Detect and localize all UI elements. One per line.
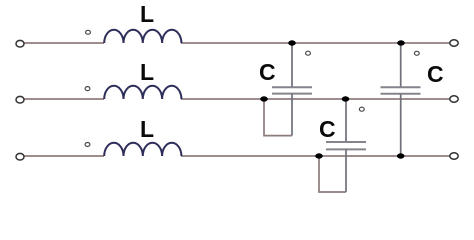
capacitor C2 top lead bbox=[345, 99, 347, 142]
terminal input phase B bbox=[16, 96, 24, 103]
wire phase C left segment bbox=[24, 155, 104, 157]
label C2 bbox=[319, 118, 336, 141]
terminal output phase C bbox=[450, 153, 458, 159]
inductor L3 bbox=[104, 143, 181, 156]
terminal input phase C bbox=[16, 153, 24, 160]
capacitor C2 plates bbox=[326, 142, 366, 149]
wire phase A left segment bbox=[24, 42, 104, 44]
capacitor C1 top lead bbox=[291, 43, 293, 87]
capacitor C1 plates bbox=[272, 87, 312, 93]
junction phase A / C3 bbox=[397, 40, 405, 45]
capacitor C3 top lead bbox=[400, 43, 402, 87]
capacitor C3 plates bbox=[381, 87, 421, 94]
node indicator circle phase A input bbox=[86, 30, 91, 34]
node indicator circle at C3 bbox=[414, 51, 419, 55]
wire C1 return loop to phase B bbox=[264, 99, 292, 136]
inductor L2 bbox=[104, 86, 181, 99]
wire phase B right segment bbox=[181, 98, 450, 100]
wire phase A right segment bbox=[181, 42, 450, 44]
capacitor C2 bottom lead bbox=[345, 149, 347, 192]
node indicator circle phase B input bbox=[85, 87, 90, 91]
node indicator circle at C2 bbox=[359, 107, 364, 111]
label L1 bbox=[140, 3, 154, 26]
wire phase C right segment bbox=[181, 155, 450, 157]
node indicator circle at C1 bbox=[306, 51, 311, 55]
terminal output phase B bbox=[450, 96, 458, 102]
node indicator circle phase C input bbox=[85, 143, 90, 147]
terminal output phase A bbox=[450, 40, 458, 46]
terminal input phase A bbox=[16, 40, 24, 47]
label L2 bbox=[140, 61, 154, 84]
capacitor C1 bottom lead bbox=[291, 94, 293, 136]
wire C2 return loop to phase C bbox=[319, 156, 346, 192]
label C1 bbox=[259, 61, 276, 84]
capacitor C3 bottom lead bbox=[400, 94, 402, 156]
inductor L1 bbox=[104, 30, 181, 43]
label L3 bbox=[140, 118, 154, 141]
junction phase B / C2 bbox=[342, 96, 350, 101]
junction phase C / C2 return bbox=[315, 153, 323, 158]
junction phase A / C1 bbox=[288, 40, 296, 45]
junction phase C / C3 bbox=[397, 153, 405, 158]
label C3 bbox=[427, 63, 444, 86]
wire phase B left segment bbox=[24, 98, 104, 100]
junction phase B / C1 return bbox=[260, 96, 268, 101]
